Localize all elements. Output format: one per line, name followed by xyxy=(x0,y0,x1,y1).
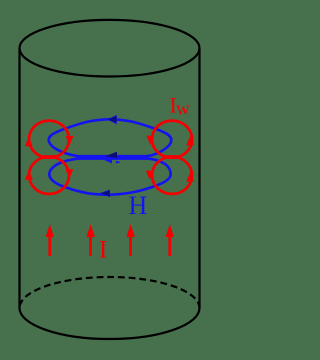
svg-text:I: I xyxy=(99,237,107,264)
red arrow LB-left up xyxy=(25,170,33,180)
blue arrow middle (navy left-pointing + bright parts) xyxy=(106,152,118,159)
field line H bottom oval xyxy=(49,159,170,195)
cylinder bottom front arc xyxy=(20,308,200,339)
cylinder bottom back dashed arc xyxy=(20,277,200,308)
cylinder top ellipse xyxy=(20,20,200,77)
blue arrow bottom arc (left-pointing) xyxy=(100,190,111,198)
winding turn circle left-bottom xyxy=(29,157,69,194)
current arrow 4 xyxy=(168,236,171,256)
current arrow 1 xyxy=(48,236,51,256)
current arrow 2 xyxy=(89,236,92,256)
red arrow RT-left down xyxy=(146,136,154,145)
red arrow RB-right up xyxy=(186,172,194,182)
red arrow LT-right down xyxy=(66,136,74,146)
red arrow RB-left down xyxy=(146,171,154,181)
cylinder right wall xyxy=(198,48,200,308)
red arrow LT-left up xyxy=(25,137,33,147)
blue arrow top arc (left-pointing) xyxy=(107,115,117,124)
junction bar right xyxy=(164,155,180,159)
current arrow 3 xyxy=(129,236,132,256)
winding turn circle left-top xyxy=(29,121,69,158)
svg-text:H: H xyxy=(129,191,148,220)
junction bar left xyxy=(42,155,58,159)
svg-text:w: w xyxy=(176,98,190,119)
field line H top oval xyxy=(49,119,172,156)
cylinder left wall xyxy=(18,48,20,308)
winding turn circle right-bottom xyxy=(152,157,192,194)
red arrow RT-right up xyxy=(186,136,194,146)
red arrow LB-right down xyxy=(65,169,73,179)
winding turn circle right-top xyxy=(152,121,192,158)
